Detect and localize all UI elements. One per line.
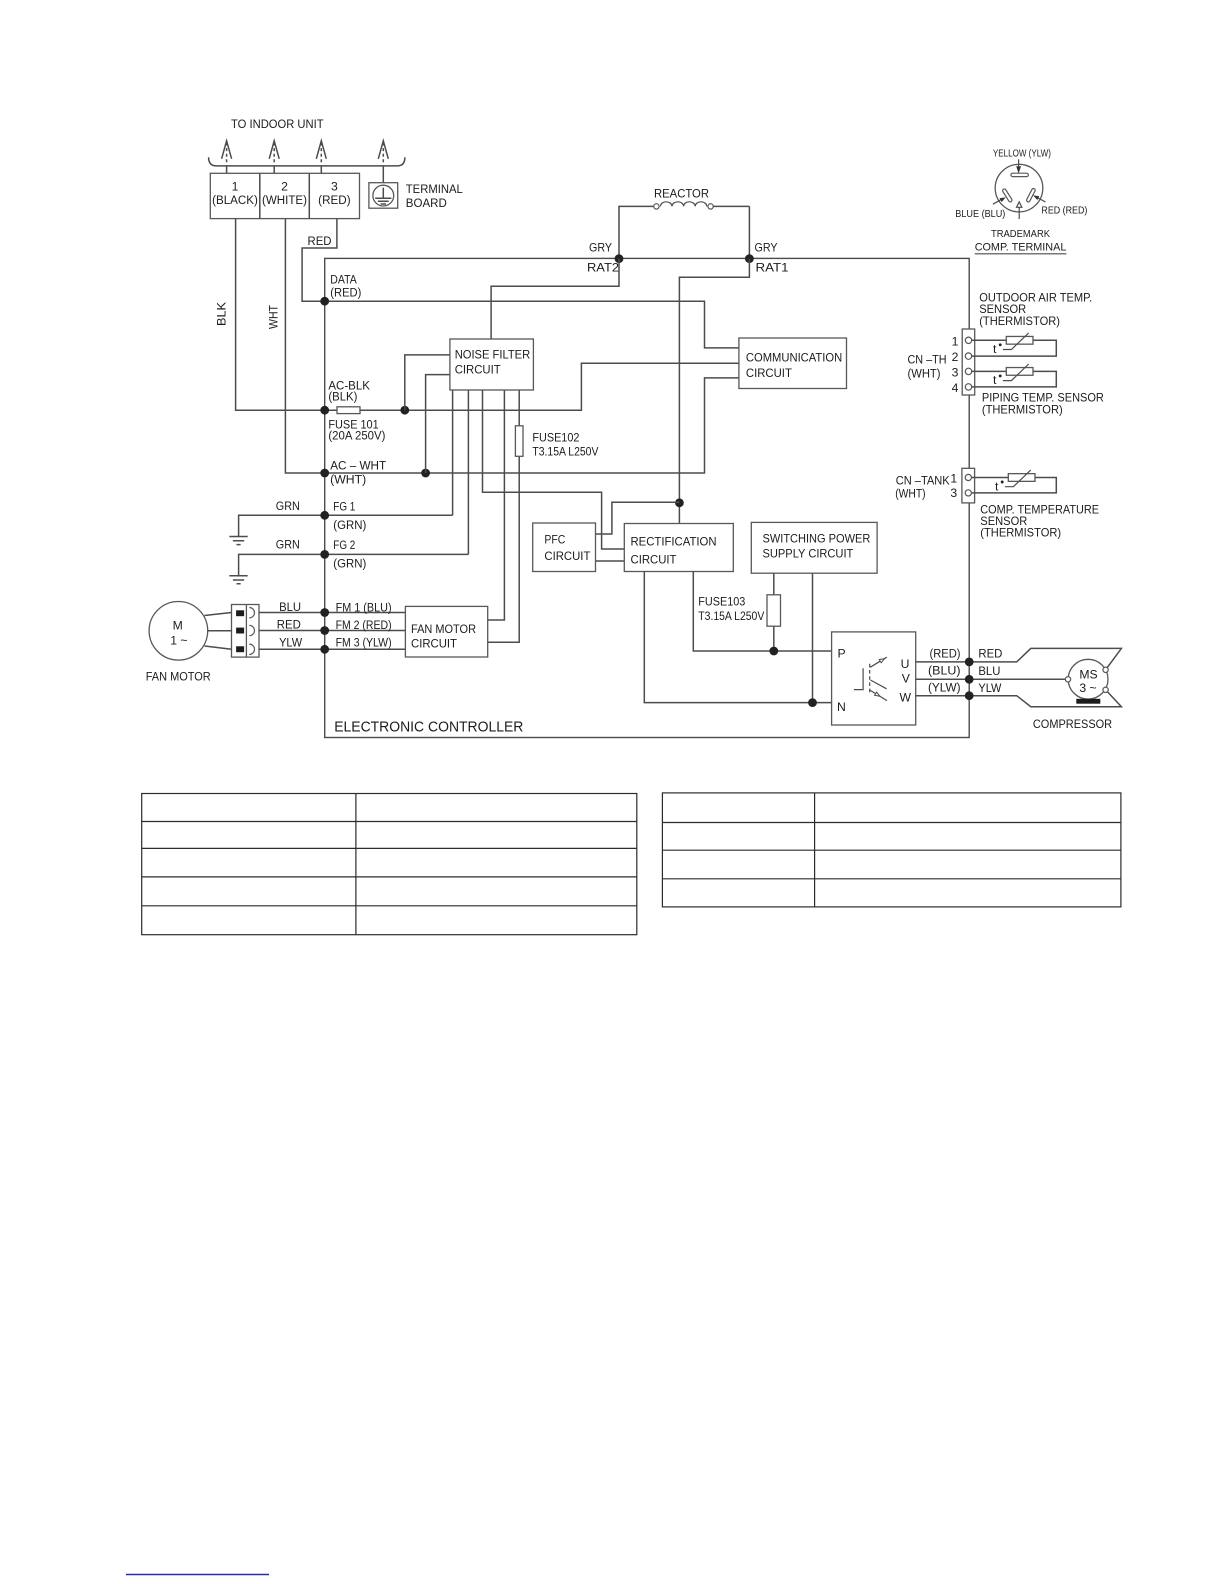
svg-text:(WHT): (WHT) [908, 367, 941, 381]
table wire-colour legend left [142, 794, 637, 935]
wire fan motor lead 2 [208, 630, 232, 632]
svg-text:T3.15A L250V: T3.15A L250V [698, 609, 765, 623]
svg-text:3: 3 [950, 486, 957, 500]
svg-text:CIRCUIT: CIRCUIT [631, 553, 678, 567]
svg-text:RED: RED [308, 234, 332, 248]
svg-text:N: N [837, 700, 846, 714]
svg-text:1: 1 [952, 334, 959, 348]
svg-text:TO INDOOR UNIT: TO INDOOR UNIT [231, 117, 324, 131]
svg-text:NOISE FILTER: NOISE FILTER [455, 347, 531, 361]
svg-text:CIRCUIT: CIRCUIT [455, 362, 502, 376]
svg-text:FG 2: FG 2 [333, 538, 355, 552]
svg-text:RED: RED [978, 647, 1002, 661]
compressor terminal U [1103, 667, 1108, 672]
svg-text:(GRN): (GRN) [333, 557, 366, 571]
node DATA terminal [320, 297, 329, 306]
comp terminal blue slot [1002, 188, 1013, 202]
footer link underline [126, 1574, 269, 1576]
svg-text:1: 1 [950, 471, 957, 485]
wire N bus (rectifier to inverter) [644, 572, 831, 703]
node FM2 terminal [320, 626, 329, 635]
svg-text:(20A 250V): (20A 250V) [328, 429, 385, 443]
svg-text:BLU: BLU [978, 664, 1000, 678]
wire FG1 [239, 515, 453, 536]
node W board terminal [965, 691, 974, 700]
comp terminal circle [995, 164, 1043, 212]
comp terminal red slot [1026, 188, 1036, 203]
svg-text:FAN MOTOR: FAN MOTOR [411, 622, 476, 636]
svg-text:GRN: GRN [276, 538, 300, 552]
wire noise filter pin through FUSE102 to fan motor circuit [488, 390, 520, 642]
svg-text:V: V [902, 672, 911, 686]
svg-text:GRY: GRY [589, 241, 612, 255]
svg-text:FM 2 (RED): FM 2 (RED) [336, 618, 392, 632]
table wire-colour legend right [662, 793, 1121, 907]
indoor-unit arrow 1 [226, 143, 228, 165]
svg-text:2: 2 [952, 350, 959, 364]
svg-text:FUSE102: FUSE102 [532, 431, 579, 445]
svg-text:TRADEMARK: TRADEMARK [991, 229, 1050, 240]
svg-text:CN –TANK: CN –TANK [896, 474, 950, 488]
svg-text:(THERMISTOR): (THERMISTOR) [982, 403, 1063, 417]
electronic controller board outline [325, 258, 970, 737]
indoor-unit arrow 2 [273, 143, 275, 165]
pfc circuit block [533, 523, 596, 572]
wire FM3 [259, 648, 405, 650]
svg-text:YLW: YLW [279, 636, 302, 650]
thermistor piping temp sensor [972, 371, 1057, 387]
wire AC-WHT line [325, 378, 739, 473]
trademark pointer [1018, 207, 1020, 219]
wire WHT (terminal2 to AC-WHT) [285, 219, 324, 473]
svg-text:DATA: DATA [330, 273, 357, 287]
ground FG2 [229, 576, 247, 584]
red pointer arrow [1038, 198, 1046, 202]
cable bracket [209, 157, 405, 166]
fan motor connector [232, 605, 260, 658]
svg-text:CIRCUIT: CIRCUIT [544, 549, 591, 563]
svg-text:W: W [900, 691, 912, 705]
svg-text:(BLU): (BLU) [928, 664, 961, 678]
svg-text:t: t [993, 373, 997, 387]
svg-text:FAN MOTOR: FAN MOTOR [146, 670, 211, 684]
wire RAT2 to noise filter [491, 259, 619, 339]
wire noise filter lower-left pin [426, 375, 450, 473]
switching power supply block [751, 522, 877, 573]
fuse FUSE101 [337, 407, 360, 414]
wire RAT1 to rectification circuit [679, 259, 749, 524]
node SPS-N junction [808, 698, 817, 707]
svg-text:SWITCHING POWER: SWITCHING POWER [763, 532, 871, 546]
node AC-WHT junction [421, 469, 430, 478]
inverter power module block [832, 632, 916, 725]
fuse FUSE102 [515, 426, 523, 457]
wire FM2 [259, 630, 405, 632]
wire PFC to rectifier input node [596, 502, 680, 534]
svg-text:YLW: YLW [978, 681, 1001, 695]
svg-text:t: t [993, 342, 997, 356]
fan motor circuit block [405, 606, 487, 657]
svg-text:3 ~: 3 ~ [1079, 681, 1096, 695]
fuse FUSE103 [767, 595, 781, 626]
wire W phase (YLW) [916, 690, 1122, 707]
thermistor comp temperature sensor [972, 478, 1057, 493]
svg-text:TERMINAL: TERMINAL [406, 182, 463, 196]
wire AC-BLK line [325, 363, 739, 410]
svg-text:FM 3 (YLW): FM 3 (YLW) [336, 636, 392, 650]
svg-text:COMPRESSOR: COMPRESSOR [1033, 717, 1112, 731]
svg-text:(YLW): (YLW) [928, 681, 961, 695]
svg-text:t: t [995, 479, 999, 493]
svg-text:COMP. TERMINAL: COMP. TERMINAL [975, 242, 1067, 254]
wire PFC to rectification lower [596, 560, 625, 562]
connector CN-TANK [962, 468, 975, 503]
blue pointer arrow [993, 200, 1001, 205]
node FG1 terminal [320, 511, 329, 520]
ground FG1 [229, 537, 247, 545]
svg-text:CN –TH: CN –TH [908, 353, 947, 367]
svg-text:WHT: WHT [267, 305, 281, 329]
node FM3 terminal [320, 645, 329, 654]
svg-text:T3.15A L250V: T3.15A L250V [532, 445, 599, 459]
svg-text:REACTOR: REACTOR [654, 187, 709, 201]
svg-text:MS: MS [1079, 668, 1097, 682]
svg-text:(THERMISTOR): (THERMISTOR) [979, 314, 1060, 328]
svg-text:3: 3 [952, 365, 959, 379]
wire U phase (RED) [916, 648, 1122, 669]
wire noise filter pin to rectification circuit [483, 390, 625, 549]
svg-text:CIRCUIT: CIRCUIT [746, 366, 793, 380]
yellow pointer arrow [1018, 159, 1020, 167]
reactor L1 [619, 206, 654, 258]
node rectifier input junction [675, 498, 684, 507]
svg-text:(THERMISTOR): (THERMISTOR) [980, 526, 1061, 540]
svg-text:1 ~: 1 ~ [170, 634, 187, 648]
node FG2 terminal [320, 550, 329, 559]
svg-text:2: 2 [281, 180, 288, 194]
terminal board block (terminals 1,2,3) [210, 173, 359, 218]
svg-text:SUPPLY CIRCUIT: SUPPLY CIRCUIT [763, 547, 854, 561]
wire noise filter upper-left pin [405, 355, 450, 410]
communication circuit block [739, 338, 847, 389]
svg-text:BLUE (BLU): BLUE (BLU) [955, 209, 1005, 220]
node AC-BLK terminal [320, 406, 329, 415]
noise filter circuit block [450, 339, 534, 390]
svg-text:BLK: BLK [215, 302, 229, 326]
svg-text:1: 1 [232, 180, 239, 194]
svg-text:(RED): (RED) [318, 195, 351, 207]
wire SPS pin through FUSE103 to P bus [773, 573, 775, 651]
svg-text:GRN: GRN [276, 499, 300, 513]
node AC-BLK junction [400, 406, 409, 415]
svg-text:AC – WHT: AC – WHT [330, 459, 387, 473]
svg-text:(BLACK): (BLACK) [212, 195, 258, 207]
wire fan motor lead 3 [205, 646, 232, 649]
wire V phase (BLU) [916, 678, 1068, 680]
node FUSE103-P junction [769, 647, 778, 656]
wire RED (terminal3 to DATA) [302, 219, 337, 302]
svg-text:FG 1: FG 1 [333, 500, 355, 514]
wire SPS pin to N bus [812, 573, 814, 702]
svg-text:(WHITE): (WHITE) [262, 195, 307, 207]
svg-text:BLU: BLU [279, 600, 301, 614]
node U board terminal [965, 658, 974, 667]
svg-text:4: 4 [952, 381, 959, 395]
wire FM1 [259, 612, 405, 614]
node AC-WHT terminal [320, 469, 329, 478]
svg-text:(BLK): (BLK) [328, 389, 357, 403]
wire P bus (rectifier to inverter) [693, 572, 831, 652]
svg-text:FM 1 (BLU): FM 1 (BLU) [336, 601, 392, 615]
compressor base bar [1076, 699, 1100, 704]
node V board terminal [965, 675, 974, 684]
compressor terminal W [1103, 687, 1108, 692]
svg-text:(RED): (RED) [930, 647, 961, 661]
svg-text:M: M [173, 619, 183, 633]
svg-text:RED (RED): RED (RED) [1041, 206, 1087, 217]
wire noise filter pin to fan motor circuit [488, 390, 505, 620]
svg-text:(WHT): (WHT) [330, 473, 366, 487]
svg-text:FUSE103: FUSE103 [698, 595, 745, 609]
svg-text:PFC: PFC [544, 533, 565, 547]
fan motor M1 [149, 602, 208, 661]
wire DATA (RED) to communication circuit [325, 301, 739, 348]
indoor-unit arrow 4 [382, 143, 384, 165]
svg-text:COMMUNICATION: COMMUNICATION [746, 351, 842, 365]
svg-text:ELECTRONIC CONTROLLER: ELECTRONIC CONTROLLER [334, 719, 523, 736]
node RAT1 [745, 254, 754, 263]
svg-text:RECTIFICATION: RECTIFICATION [631, 535, 717, 549]
svg-text:RAT2: RAT2 [587, 261, 619, 275]
comp terminal yellow slot [1011, 173, 1029, 176]
svg-text:(GRN): (GRN) [333, 518, 366, 532]
svg-text:U: U [901, 657, 910, 671]
wire fan motor lead 1 [205, 613, 232, 616]
wire FG2 [239, 554, 469, 575]
indoor-unit arrow 3 [320, 143, 322, 165]
svg-text:CIRCUIT: CIRCUIT [411, 637, 458, 651]
compressor terminal V [1065, 677, 1070, 682]
wire BLK (terminal1 to AC-BLK) [236, 219, 325, 411]
svg-text:RED: RED [277, 618, 301, 632]
ground terminal of terminal board [369, 183, 398, 209]
node RAT2 [615, 254, 624, 263]
igbt symbol [854, 668, 863, 689]
wire noise filter pin to FG2 [467, 390, 469, 554]
svg-text:BOARD: BOARD [406, 196, 447, 210]
svg-text:3: 3 [331, 180, 338, 194]
svg-text:RAT1: RAT1 [756, 261, 789, 275]
rectification circuit block [624, 524, 733, 572]
svg-text:YELLOW (YLW): YELLOW (YLW) [993, 149, 1051, 160]
svg-text:GRY: GRY [755, 241, 778, 255]
connector CN-TH [962, 329, 975, 395]
svg-text:(RED): (RED) [330, 286, 361, 300]
svg-text:P: P [838, 647, 846, 661]
node FM1 terminal [320, 608, 329, 617]
thermistor outdoor air temp sensor [972, 340, 1057, 356]
svg-text:(WHT): (WHT) [895, 487, 925, 501]
wire noise filter pin to FG1 [452, 390, 454, 515]
compressor motor MS 3~ [1068, 659, 1108, 699]
